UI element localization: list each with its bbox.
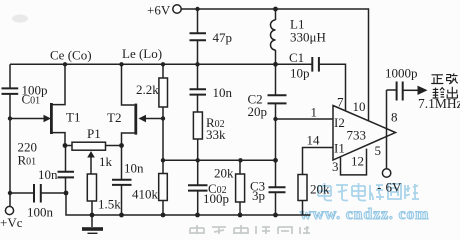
faint smudge	[12, 15, 28, 23]
svg-text:2.2k: 2.2k	[136, 82, 159, 97]
svg-text:-: -	[377, 180, 381, 195]
svg-text:100p: 100p	[203, 191, 229, 206]
svg-text:I1: I1	[334, 141, 345, 156]
junction rail 47p	[195, 7, 199, 11]
wire T1 gate	[10, 118, 45, 120]
resistor 410k	[159, 174, 168, 201]
junction mid 20k	[238, 158, 242, 162]
svg-text:20p: 20p	[248, 104, 268, 119]
wire pin 8 / pin 5	[386, 90, 388, 169]
junction node T2 drain	[119, 62, 123, 66]
svg-text:1: 1	[311, 105, 318, 120]
resistor 2.2k	[162, 64, 164, 78]
glyph shu	[433, 88, 445, 98]
watermark bottom gray CJK	[190, 225, 310, 234]
capacitor C01 100p	[2, 87, 19, 89]
svg-text:R01: R01	[18, 153, 37, 168]
terminal -6V	[382, 169, 390, 177]
junction node L1 C1	[273, 62, 278, 67]
svg-text:6V: 6V	[386, 180, 403, 195]
svg-text:www. cndzz. com: www. cndzz. com	[300, 206, 429, 223]
wire pin 7	[319, 64, 346, 111]
capacitor C3 3p	[269, 186, 286, 188]
glyph zheng	[431, 75, 443, 84]
svg-text:7.1MHz: 7.1MHz	[418, 96, 460, 111]
svg-text:10p: 10p	[290, 66, 310, 81]
junction pin1 wire	[273, 117, 277, 121]
svg-text:+6V: +6V	[147, 3, 171, 18]
junction T1 gate	[8, 116, 12, 120]
svg-text:1000p: 1000p	[385, 66, 418, 81]
ground	[91, 215, 93, 227]
resistor 20k (first)	[239, 160, 241, 174]
+6V terminal	[173, 5, 181, 13]
wire bottom bus	[66, 193, 311, 215]
svg-text:33k: 33k	[206, 127, 226, 142]
svg-text:20k: 20k	[310, 182, 330, 197]
output arrow	[418, 86, 428, 95]
junction bus 20k	[238, 213, 243, 218]
svg-text:C1: C1	[289, 50, 304, 65]
junction node 2.2k	[161, 62, 165, 66]
junction mid C3	[273, 158, 278, 163]
svg-text:3: 3	[332, 159, 339, 174]
junction T2 gate	[161, 116, 165, 120]
junction node 10n	[195, 62, 199, 66]
capacitor C2 20p	[275, 64, 277, 95]
junction bus C3	[273, 213, 278, 218]
svg-text:733: 733	[347, 128, 367, 143]
transistor T1	[44, 115, 52, 122]
resistor 1.5k	[87, 174, 96, 201]
wire pin 1	[276, 118, 334, 120]
junction T1 source	[63, 143, 68, 148]
svg-text:T2: T2	[107, 110, 121, 125]
junction rail L1	[273, 7, 278, 12]
junction 100n right	[64, 191, 69, 196]
junction mid R02	[196, 158, 200, 162]
wire pins 3-12 loop	[341, 149, 367, 175]
svg-text:3p: 3p	[252, 188, 265, 203]
output label sine Chinese (drawn)	[431, 73, 458, 98]
wire mid line	[163, 159, 276, 161]
svg-text:Le (Lo): Le (Lo)	[122, 46, 162, 61]
capacitor 10n (T2 source)	[121, 146, 123, 180]
terminal +Vc	[5, 206, 13, 214]
svg-text:10n: 10n	[213, 85, 233, 100]
capacitor 47p	[197, 9, 199, 33]
junction bus 10n	[119, 213, 124, 218]
svg-text:I2: I2	[334, 115, 345, 130]
wire left column lower	[9, 94, 11, 206]
svg-text:47p: 47p	[213, 30, 233, 45]
junction bus 410k	[161, 213, 166, 218]
junction bus 1.5k	[90, 213, 95, 218]
junction T2 source	[119, 143, 124, 148]
svg-text:P1: P1	[87, 126, 101, 141]
capacitor 1000p output	[387, 89, 397, 91]
svg-text:8: 8	[391, 110, 398, 125]
capacitor 10n (T1 source)	[65, 146, 67, 172]
svg-text:100n: 100n	[27, 205, 54, 220]
svg-text:12: 12	[351, 154, 364, 169]
transistor T2	[134, 104, 137, 135]
op-amp 733 triangle	[333, 106, 396, 161]
wire left column upper	[9, 64, 11, 88]
svg-text:Ce (Co): Ce (Co)	[50, 48, 92, 63]
watermark row2 www.cndzz.com blue	[300, 206, 429, 223]
capacitor C1 10p	[276, 63, 313, 65]
svg-text:10n: 10n	[38, 167, 58, 182]
junction bus C02	[195, 213, 200, 218]
junction 100n left	[8, 191, 12, 195]
capacitor 10n (mid)	[197, 64, 199, 89]
glyph xian	[446, 73, 458, 84]
wire top rail +6V to pin10 corner	[181, 9, 368, 121]
svg-text:1k: 1k	[99, 154, 113, 169]
potentiometer P1	[65, 145, 72, 147]
capacitor C02 100p	[197, 160, 199, 185]
wire node line Ce/Le	[10, 63, 276, 65]
svg-text:10n: 10n	[124, 161, 144, 176]
svg-text:410k: 410k	[132, 187, 159, 202]
junction mid 410k	[161, 158, 165, 162]
svg-text:20k: 20k	[214, 166, 234, 181]
svg-text:T1: T1	[66, 110, 80, 125]
svg-text:7: 7	[337, 95, 344, 110]
resistor 20k (second)	[298, 175, 307, 201]
svg-text:330μH: 330μH	[290, 30, 326, 45]
svg-text:14: 14	[307, 133, 321, 148]
glyph chu	[447, 87, 457, 98]
resistor R02 33k	[193, 112, 202, 139]
svg-text:10: 10	[353, 99, 366, 114]
junction node T1 drain	[63, 62, 67, 66]
svg-text:5: 5	[375, 143, 382, 158]
svg-text:+Vc: +Vc	[0, 215, 23, 230]
svg-text:1.5k: 1.5k	[98, 197, 121, 212]
inductor L1	[275, 9, 277, 20]
wire pin 14	[303, 148, 334, 175]
capacitor 100n	[10, 192, 34, 194]
watermark row1 CJK blue	[318, 183, 419, 201]
